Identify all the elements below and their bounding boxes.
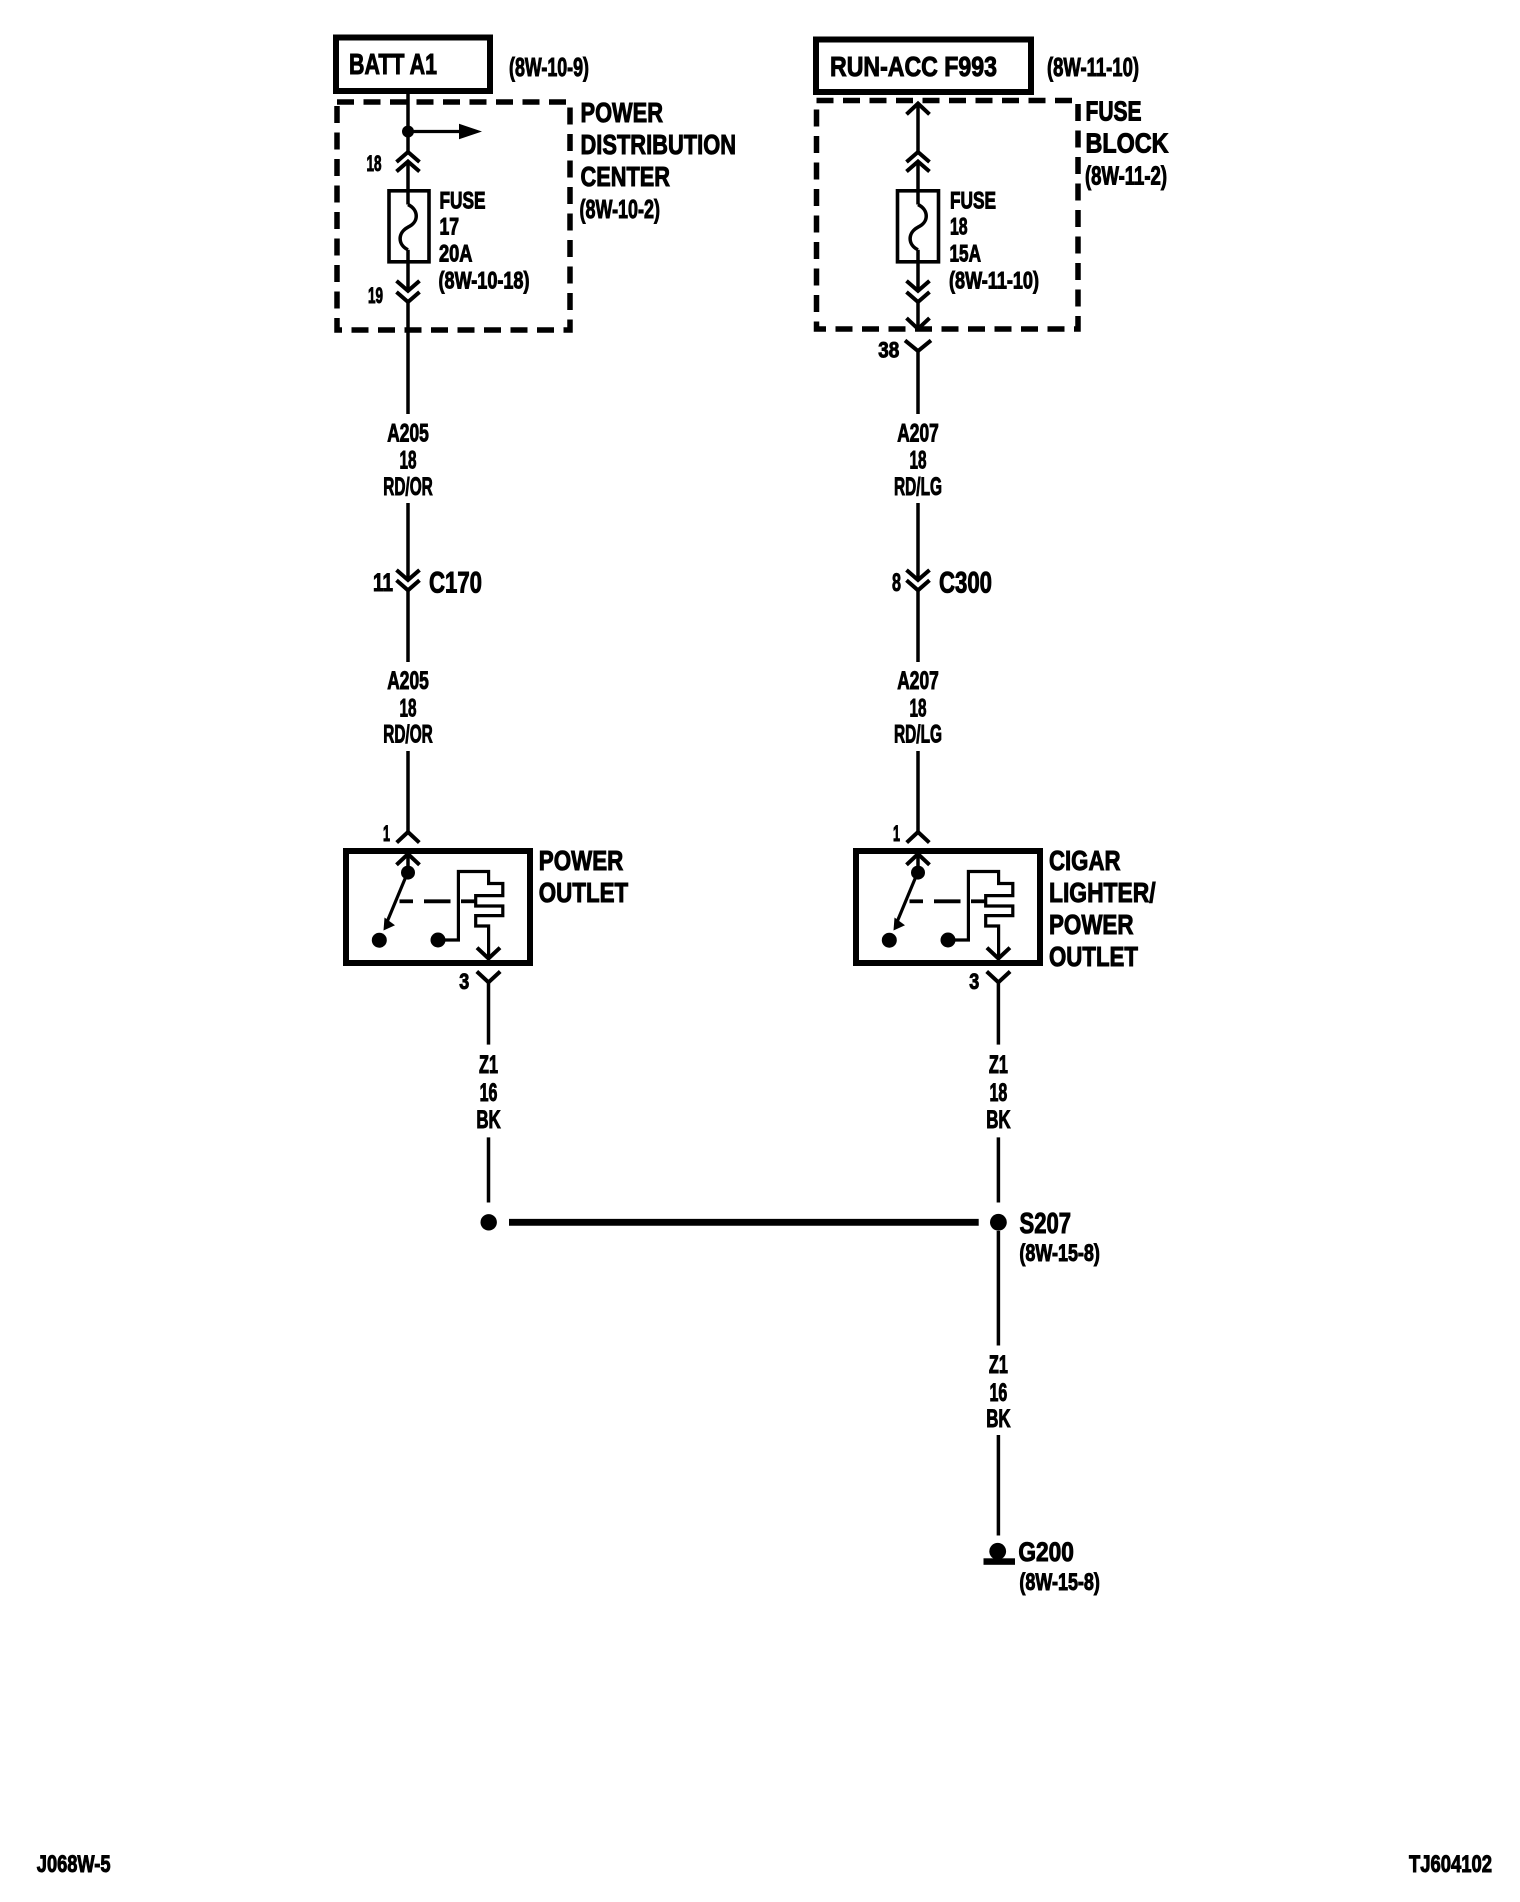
wire S207 to label Z1 16 BK <box>997 1231 1001 1346</box>
svg-text:(8W-10-9): (8W-10-9) <box>509 52 589 82</box>
svg-text:19: 19 <box>368 283 383 308</box>
svg-text:18: 18 <box>990 1079 1008 1107</box>
cigar lighter heating element right <box>948 872 1013 959</box>
fuse block dashed box <box>817 101 1079 330</box>
svg-text:(8W-11-10): (8W-11-10) <box>1047 52 1139 82</box>
lighter element contact dot <box>431 933 446 948</box>
svg-text:16: 16 <box>480 1079 498 1107</box>
switch lower contact dot right <box>882 933 897 948</box>
fuse 17 body <box>389 191 429 262</box>
wire pin 19 to label A205 <box>406 302 410 414</box>
svg-text:S207: S207 <box>1020 1208 1072 1240</box>
svg-text:38: 38 <box>878 337 899 362</box>
svg-text:RD/LG: RD/LG <box>894 721 942 749</box>
svg-text:FUSE: FUSE <box>1086 95 1142 126</box>
fuse 17 element curve <box>400 205 416 250</box>
svg-text:POWER: POWER <box>539 845 624 876</box>
switch blade arrow right <box>897 874 917 922</box>
pin 38 female connector half <box>905 340 931 351</box>
svg-text:A207: A207 <box>897 419 939 447</box>
svg-text:OUTLET: OUTLET <box>539 877 628 908</box>
svg-text:3: 3 <box>969 969 979 994</box>
wire A205 to power outlet pin 1 <box>406 751 410 832</box>
cigar lighter power outlet box <box>856 851 1040 963</box>
inline connector chevrons fuse block <box>907 152 930 162</box>
pin 3 female connector half <box>477 972 500 983</box>
inline connector chevrons pin 19 <box>397 281 420 291</box>
wire A205 to connector C170 <box>406 503 410 580</box>
fuse 18 element curve <box>910 205 926 250</box>
svg-text:18: 18 <box>400 694 417 722</box>
svg-text:RD/OR: RD/OR <box>383 473 433 501</box>
wire Z1 to ground G200 <box>997 1435 1001 1536</box>
pin 1 female connector half <box>397 832 420 843</box>
svg-text:Z1: Z1 <box>989 1051 1008 1079</box>
connector C170 chevrons <box>397 570 420 580</box>
wire fuse 18 to lower chevrons <box>916 250 920 291</box>
switch linkage dashed line <box>400 899 414 903</box>
power source label box BATT A1 <box>336 38 490 92</box>
switch linkage dashed line right <box>910 899 924 903</box>
wire fuse block top to fuse 18 <box>916 104 920 153</box>
pin 3 male connector arrow <box>477 948 500 959</box>
lighter element contact dot right <box>941 933 956 948</box>
svg-text:DISTRIBUTION: DISTRIBUTION <box>581 129 737 160</box>
pin 3 male connector arrow right <box>987 948 1010 959</box>
ground G200 symbol <box>989 1543 1006 1560</box>
svg-text:(8W-11-10): (8W-11-10) <box>949 268 1039 295</box>
wire A207 to connector C300 <box>916 503 920 580</box>
male connector arrow into fuse block <box>907 104 930 115</box>
svg-text:(8W-11-2): (8W-11-2) <box>1085 160 1167 190</box>
power distribution center dashed box <box>337 102 570 330</box>
power outlet box <box>346 851 530 963</box>
svg-text:(8W-15-8): (8W-15-8) <box>1019 1569 1100 1596</box>
svg-text:18: 18 <box>367 151 382 176</box>
inline connector chevrons pin 18 <box>397 152 420 162</box>
svg-text:3: 3 <box>459 969 469 994</box>
svg-text:BK: BK <box>986 1106 1010 1134</box>
svg-text:(8W-15-8): (8W-15-8) <box>1019 1240 1100 1267</box>
svg-text:OUTLET: OUTLET <box>1049 941 1138 972</box>
pin 1 male connector arrow right <box>907 854 930 865</box>
svg-text:Z1: Z1 <box>989 1351 1008 1379</box>
svg-text:11: 11 <box>373 569 393 597</box>
wire chevrons to fuse 18 <box>916 162 920 205</box>
svg-text:8: 8 <box>892 569 901 597</box>
svg-text:A205: A205 <box>387 419 429 447</box>
wire pin 3 to label Z1 right <box>997 982 1001 1044</box>
switch blade arrow <box>387 874 407 922</box>
switch lower contact dot <box>372 933 387 948</box>
connector C300 chevrons <box>907 570 930 580</box>
svg-text:CIGAR: CIGAR <box>1049 845 1121 876</box>
svg-text:TJ604102: TJ604102 <box>1409 1851 1492 1878</box>
svg-text:C300: C300 <box>939 567 992 600</box>
svg-text:RUN-ACC F993: RUN-ACC F993 <box>830 51 997 82</box>
fuse 18 body <box>898 191 939 262</box>
pin 1 female connector half right <box>907 832 930 843</box>
junction dot left end of splice wire <box>481 1214 497 1230</box>
splice S207 junction dot <box>990 1214 1007 1231</box>
wire Z1 to splice S207 <box>487 1137 491 1202</box>
svg-text:G200: G200 <box>1018 1537 1074 1567</box>
splice bus wire to S207 <box>509 1219 979 1226</box>
svg-text:15A: 15A <box>950 241 982 268</box>
wire chevrons to fuse block edge <box>916 302 920 329</box>
svg-text:FUSE: FUSE <box>950 188 996 215</box>
svg-text:BATT A1: BATT A1 <box>349 49 437 81</box>
feed arrow to other circuits <box>412 130 461 133</box>
wire pin 38 to label A207 <box>916 351 920 414</box>
svg-text:POWER: POWER <box>581 97 664 128</box>
svg-text:18: 18 <box>950 214 968 241</box>
male connector arrow out of fuse block <box>907 318 930 329</box>
svg-text:17: 17 <box>440 214 460 241</box>
svg-text:16: 16 <box>990 1379 1008 1407</box>
switch pivot dot right <box>911 866 925 880</box>
svg-text:A205: A205 <box>387 667 429 695</box>
switch pivot dot <box>401 866 415 880</box>
svg-text:18: 18 <box>910 447 927 475</box>
wire BATT A1 to fuse 17 <box>406 91 410 152</box>
svg-text:Z1: Z1 <box>479 1051 498 1079</box>
svg-text:18: 18 <box>910 694 927 722</box>
cigar lighter heating element <box>438 872 503 959</box>
svg-text:BK: BK <box>986 1405 1010 1433</box>
svg-text:A207: A207 <box>897 667 939 695</box>
svg-text:J068W-5: J068W-5 <box>37 1851 111 1878</box>
svg-text:1: 1 <box>893 821 900 846</box>
wire A207 to cigar lighter pin 1 <box>916 751 920 832</box>
junction dot node A1 feed <box>402 126 414 138</box>
wire Z1 to splice S207 right <box>997 1137 1001 1202</box>
pin 3 female connector half right <box>987 972 1010 983</box>
inline connector chevrons fuse block lower <box>907 281 930 291</box>
wire pin 3 to label Z1 <box>487 982 491 1044</box>
wire C300 to label A207 lower <box>916 590 920 662</box>
svg-text:CENTER: CENTER <box>581 161 671 192</box>
svg-text:18: 18 <box>400 447 417 475</box>
wire chevrons to fuse 17 <box>406 162 410 205</box>
power source label box RUN-ACC F993 <box>816 40 1031 93</box>
svg-text:(8W-10-2): (8W-10-2) <box>580 194 661 224</box>
svg-text:BK: BK <box>476 1106 500 1134</box>
svg-text:LIGHTER/: LIGHTER/ <box>1049 877 1156 908</box>
svg-text:20A: 20A <box>439 241 473 268</box>
svg-text:FUSE: FUSE <box>440 188 486 215</box>
wire fuse 17 to pin 19 <box>406 250 410 291</box>
svg-text:C170: C170 <box>429 567 482 600</box>
svg-text:POWER: POWER <box>1049 909 1134 940</box>
pin 1 male connector arrow <box>397 854 420 865</box>
svg-text:RD/OR: RD/OR <box>383 721 433 749</box>
svg-text:(8W-10-18): (8W-10-18) <box>439 268 530 295</box>
svg-text:RD/LG: RD/LG <box>894 473 942 501</box>
svg-text:1: 1 <box>383 821 390 846</box>
wire C170 to label A205 lower <box>406 590 410 662</box>
svg-text:BLOCK: BLOCK <box>1086 127 1169 158</box>
